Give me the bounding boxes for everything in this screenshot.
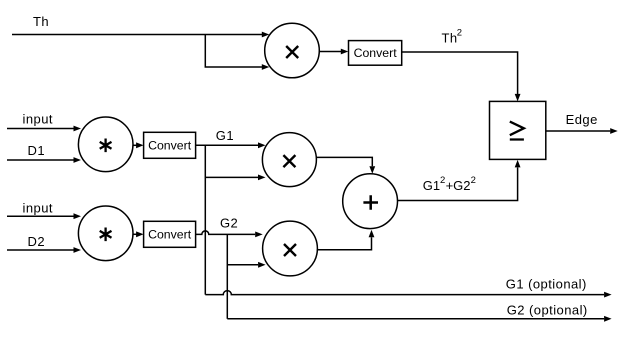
wire multiplier to Convert (top) bbox=[319, 51, 341, 53]
wire D2 bbox=[7, 249, 74, 251]
wire convolution to Convert (middle) bbox=[133, 144, 137, 146]
arrowhead Th first input bbox=[262, 32, 270, 38]
wire input second bbox=[7, 215, 74, 217]
arrowhead Th second input bbox=[262, 64, 270, 70]
wire convolution to Convert (bottom) bbox=[133, 233, 137, 235]
arrowhead D2 bbox=[74, 247, 82, 253]
wire G2 branch to multiplier second input bbox=[227, 264, 258, 266]
Convert box (top) bbox=[349, 41, 402, 66]
arrowhead G2 second input bbox=[258, 262, 266, 268]
convolution asterisk symbol bbox=[100, 139, 112, 153]
node Edge label bbox=[566, 112, 598, 127]
convolution asterisk symbol bbox=[100, 228, 112, 242]
node G1^2+G2^2 label bbox=[423, 175, 476, 193]
arrowhead input second bbox=[74, 213, 82, 219]
svg-text:G1 (optional): G1 (optional) bbox=[506, 276, 587, 291]
svg-text:input: input bbox=[23, 112, 53, 127]
convolution circle (input with D2) bbox=[78, 206, 133, 261]
node D1 label bbox=[28, 143, 46, 158]
wire G1 to multiplier bbox=[196, 144, 258, 146]
wire Th branch to second multiplier input bbox=[205, 35, 262, 68]
node G2 label bbox=[220, 216, 238, 231]
node G1 label bbox=[216, 128, 234, 143]
node G2 (optional) label bbox=[507, 302, 588, 317]
multiply symbol bbox=[284, 244, 296, 256]
wire Th input bbox=[12, 34, 262, 36]
svg-text:Convert: Convert bbox=[354, 46, 398, 60]
wire G1 branch vertical down bbox=[204, 145, 206, 294]
svg-text:input: input bbox=[23, 200, 53, 215]
wire G2 branch vertical down bbox=[226, 234, 228, 318]
svg-text:2: 2 bbox=[440, 175, 445, 186]
wire G2 multiplier to adder bbox=[317, 237, 371, 250]
svg-text:+G2: +G2 bbox=[446, 178, 471, 193]
multiplier circle (G2 squared) bbox=[263, 221, 318, 276]
svg-text:2: 2 bbox=[457, 28, 462, 39]
wire G1 optional output with hop over G2 vertical bbox=[205, 291, 604, 295]
svg-text:2: 2 bbox=[471, 175, 476, 186]
arrowhead into comparator bottom bbox=[515, 160, 521, 168]
node Th^2 label bbox=[442, 28, 462, 46]
adder circle bbox=[343, 174, 398, 229]
arrowhead D1 bbox=[74, 157, 82, 163]
convolution circle (input with D1) bbox=[78, 117, 133, 172]
plus symbol bbox=[363, 195, 378, 210]
arrowhead G1 first input bbox=[258, 142, 266, 148]
multiplier circle (G1 squared) bbox=[262, 133, 316, 187]
wire G1 branch to multiplier second input bbox=[205, 176, 258, 178]
svg-text:G2 (optional): G2 (optional) bbox=[507, 302, 588, 317]
arrowhead into Convert (bottom) bbox=[136, 231, 144, 237]
multiply symbol bbox=[283, 155, 295, 167]
node G1 (optional) label bbox=[506, 276, 587, 291]
arrowhead G2 first input bbox=[255, 232, 263, 238]
multiply symbol bbox=[286, 46, 298, 58]
node D2 label bbox=[28, 234, 46, 249]
wire input first bbox=[7, 128, 74, 130]
arrowhead into adder bottom bbox=[369, 230, 375, 238]
Convert box (middle) bbox=[144, 132, 196, 158]
node input label (first) bbox=[23, 112, 53, 127]
arrowhead G2 optional bbox=[604, 316, 612, 322]
wire Edge output bbox=[546, 130, 610, 132]
node Th label bbox=[33, 14, 49, 29]
arrowhead into Convert (middle) bbox=[136, 142, 144, 148]
svg-text:G2: G2 bbox=[220, 216, 238, 231]
svg-text:Th: Th bbox=[442, 31, 458, 46]
svg-text:D1: D1 bbox=[28, 143, 46, 158]
Convert box (bottom) bbox=[144, 221, 196, 247]
svg-text:Convert: Convert bbox=[148, 228, 192, 242]
comparator box (greater or equal) bbox=[490, 101, 546, 159]
svg-text:Convert: Convert bbox=[148, 139, 192, 153]
arrowhead input first bbox=[74, 126, 82, 132]
arrowhead G1 optional bbox=[604, 292, 612, 298]
multiplier circle (Th squared) bbox=[265, 23, 320, 78]
svg-text:G1: G1 bbox=[423, 178, 440, 193]
arrowhead into Convert (top) bbox=[341, 49, 349, 55]
wire adder to comparator bottom input bbox=[398, 168, 518, 201]
node input label (second) bbox=[23, 200, 53, 215]
wire G2 to multiplier with hop over G1 vertical bbox=[196, 231, 256, 235]
greater-equal symbol bbox=[510, 122, 524, 140]
wire G2 optional output bbox=[227, 318, 604, 320]
svg-text:Th: Th bbox=[33, 14, 49, 29]
wire D1 bbox=[7, 159, 74, 161]
arrowhead G1 second input bbox=[258, 175, 266, 181]
svg-text:Edge: Edge bbox=[566, 112, 598, 127]
wire Convert top to comparator top input bbox=[402, 52, 518, 95]
wire G1 multiplier to adder bbox=[316, 157, 372, 166]
svg-text:G1: G1 bbox=[216, 128, 234, 143]
arrowhead into adder top bbox=[369, 166, 375, 174]
arrowhead Edge output bbox=[610, 128, 618, 134]
svg-text:D2: D2 bbox=[28, 234, 46, 249]
arrowhead into comparator top bbox=[515, 94, 521, 102]
